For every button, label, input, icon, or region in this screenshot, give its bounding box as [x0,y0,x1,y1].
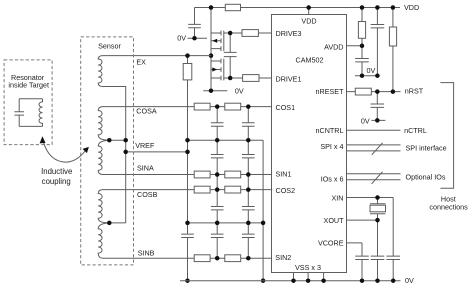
svg-text:0V: 0V [177,34,186,43]
svg-text:SPI x 4: SPI x 4 [320,142,343,151]
svg-text:0V: 0V [235,86,244,95]
svg-text:SIN2: SIN2 [275,253,291,262]
svg-text:XIN: XIN [332,194,344,203]
svg-text:nCTRL: nCTRL [404,126,427,135]
svg-text:SIN1: SIN1 [276,170,292,179]
svg-text:0V: 0V [361,116,370,125]
svg-text:Optional IOs: Optional IOs [406,172,446,181]
svg-text:Sensor: Sensor [98,41,121,50]
svg-text:nRST: nRST [405,86,424,95]
svg-text:SPI interface: SPI interface [406,144,447,153]
svg-text:COS2: COS2 [276,186,296,195]
svg-text:IOs x 6: IOs x 6 [321,175,344,184]
svg-text:Inductive: Inductive [41,167,72,176]
svg-text:nRESET: nRESET [316,87,345,96]
svg-text:VCORE: VCORE [318,239,344,248]
svg-text:COSA: COSA [136,107,157,116]
svg-text:DRIVE1: DRIVE1 [276,74,302,83]
svg-text:VDD: VDD [301,16,316,25]
svg-text:XOUT: XOUT [324,216,345,225]
svg-text:inside Target: inside Target [8,81,49,90]
svg-text:coupling: coupling [42,177,71,186]
svg-text:VREF: VREF [135,141,155,150]
svg-text:COSB: COSB [137,190,158,199]
svg-text:AVDD: AVDD [324,42,343,51]
svg-text:nCNTRL: nCNTRL [316,126,344,135]
svg-text:COS1: COS1 [276,103,296,112]
svg-text:connections: connections [429,203,468,212]
svg-text:DRIVE3: DRIVE3 [276,29,302,38]
svg-text:CAM502: CAM502 [296,56,324,65]
svg-text:SINB: SINB [138,249,155,258]
svg-text:0V: 0V [367,66,376,75]
svg-text:SINA: SINA [137,164,154,173]
svg-text:EX: EX [136,57,146,66]
svg-text:VDD: VDD [404,3,419,12]
svg-text:VSS x 3: VSS x 3 [295,263,321,272]
svg-text:0V: 0V [405,276,414,285]
